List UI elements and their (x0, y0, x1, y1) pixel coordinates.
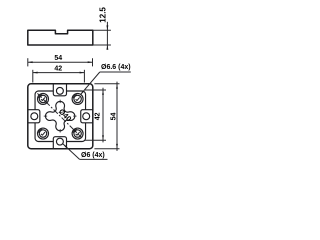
dim line 12.5 (106, 22, 108, 50)
inner square contour (35, 91, 53, 110)
mid-side holes (56, 87, 63, 94)
dim 42 right (85, 89, 107, 91)
dim 54 right (94, 83, 119, 85)
leader 6 (63, 144, 80, 160)
svg-text:42: 42 (54, 65, 62, 72)
dim 42 top (32, 70, 34, 83)
svg-text:Ø6 (4x): Ø6 (4x) (81, 152, 105, 159)
arrows 54 top (28, 61, 33, 63)
profile view outline (28, 30, 93, 45)
arrows 42 top (33, 72, 38, 74)
arrows 12.5 (106, 25, 108, 30)
bolt-circle diagonal (37, 93, 83, 139)
ext lines 12.5 (93, 29, 111, 31)
dim 54 top (27, 58, 29, 66)
arrows bolt circle (43, 99, 47, 103)
center clover opening (45, 101, 74, 130)
svg-text:54: 54 (54, 55, 62, 62)
arrow leader 6.6 (81, 91, 85, 95)
arrow leader 6 (63, 144, 67, 148)
svg-text:12.5: 12.5 (98, 7, 107, 23)
arrows 54 right (116, 84, 118, 89)
screws (38, 93, 49, 104)
svg-text:Ø6.6 (4x): Ø6.6 (4x) (101, 64, 131, 71)
plan view plate outline (28, 84, 93, 149)
leader 6.6 (81, 72, 100, 95)
svg-text:54: 54 (110, 113, 117, 121)
svg-text:42: 42 (94, 112, 101, 120)
mid-side notches (53, 84, 66, 96)
arrows 42 right (102, 90, 104, 95)
lobe ticks (59, 100, 61, 103)
